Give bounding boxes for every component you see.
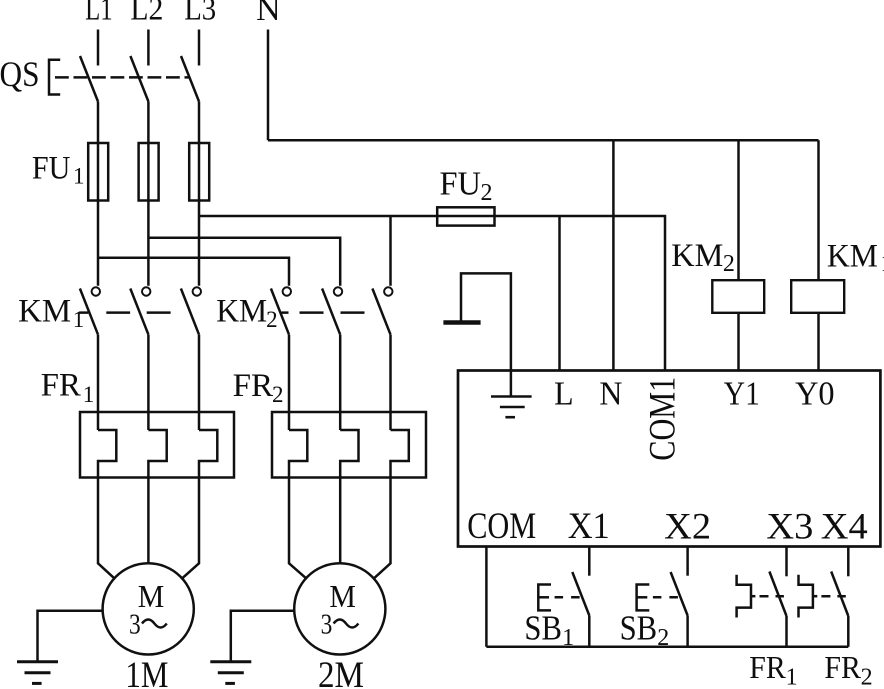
wire FU2 to L and COM1 <box>495 216 666 371</box>
svg-text:COM: COM <box>467 506 536 547</box>
switch QS linkage bracket <box>49 60 60 95</box>
wire branch L3 to FU2 with tap to KM2 pole3 <box>199 215 437 218</box>
motor 1M ground <box>17 660 58 663</box>
svg-text:COM1: COM1 <box>643 377 684 461</box>
wire N bus horizontal <box>268 139 819 142</box>
pushbutton SB2 blade <box>671 572 688 616</box>
contactor KM2 linkage dashed line <box>282 311 365 314</box>
wire KM1 coil to Y0 <box>817 313 820 371</box>
wire L1 phase FU1 to KM1 pole1 <box>97 201 100 286</box>
fuse FU1 element 2 <box>139 143 159 201</box>
contactor KM1 pole 1 <box>92 287 100 295</box>
earth bar <box>443 320 480 325</box>
fuse FU2 <box>437 207 494 225</box>
svg-text:L: L <box>554 376 574 413</box>
PLC ground symbol inside <box>510 371 513 397</box>
wire QS pole2 to FU1 <box>147 102 150 144</box>
wire KM2 pole3 to FR2 <box>389 335 392 430</box>
svg-text:1: 1 <box>83 382 95 407</box>
svg-text:2: 2 <box>723 251 735 277</box>
wire L2 drop to QS <box>147 30 150 66</box>
svg-text:FR: FR <box>41 368 81 404</box>
svg-text:X2: X2 <box>664 507 711 548</box>
wire COM to bottom bus <box>485 547 488 647</box>
contactor KM1 pole 3 <box>193 287 201 295</box>
svg-text:2: 2 <box>266 307 278 332</box>
wire FR1 to motor 1M <box>98 478 114 578</box>
svg-text:Y0: Y0 <box>795 376 835 413</box>
thermal relay FR1 heater 1 <box>98 430 116 478</box>
pushbutton SB2 actuator <box>637 585 650 611</box>
wire X3 stub <box>785 547 788 577</box>
svg-text:FR: FR <box>824 649 861 685</box>
wire N to KM1 coil <box>817 140 820 280</box>
motor 2M ground wire <box>231 611 295 662</box>
fuse FU1 element 1 <box>88 143 108 201</box>
wire KM1 pole3 to FR1 <box>198 335 201 430</box>
pushbutton SB1 blade <box>572 572 589 616</box>
thermal relay FR1 heater 2 <box>148 430 166 478</box>
wire branch L2 to KM2 pole2 <box>148 238 340 286</box>
FR1 NC contact actuator <box>737 575 751 618</box>
wire KM1 pole1 to FR1 <box>97 335 100 430</box>
svg-text:2: 2 <box>861 665 873 689</box>
svg-text:1: 1 <box>73 307 85 332</box>
wire X2 stub <box>686 547 689 576</box>
motor 2M circle <box>294 563 385 654</box>
svg-text:KM: KM <box>827 239 878 275</box>
contactor KM1 pole 2 <box>142 287 150 295</box>
motor 2M ground <box>210 660 251 663</box>
wire N drop to PLC N terminal <box>612 140 615 370</box>
thermal relay FR2 heater 3 <box>391 430 409 478</box>
wire X1 stub <box>588 547 591 576</box>
svg-text:X4: X4 <box>821 507 868 548</box>
contactor KM2 pole 3 <box>384 287 392 295</box>
svg-text:KM: KM <box>216 293 267 329</box>
wire L3 phase FU1 to KM1 pole3 <box>198 201 201 286</box>
svg-text:KM: KM <box>18 293 71 329</box>
fuse FU1 element 3 <box>189 143 209 201</box>
switch QS blade pole 3 <box>181 56 199 102</box>
contactor KM2 pole 2 <box>334 287 342 295</box>
wire KM2 pole2 to FR2 <box>339 335 342 430</box>
earth terminal wire outside PLC <box>461 273 511 370</box>
svg-text:1M: 1M <box>125 655 168 689</box>
FR2 NC contact actuator <box>799 575 813 618</box>
contactor KM1 linkage dashed line <box>80 311 171 314</box>
svg-text:FR: FR <box>233 368 274 404</box>
wire L1 drop to QS <box>97 30 100 66</box>
pushbutton SB1 actuator <box>538 585 551 611</box>
svg-text:3: 3 <box>321 610 333 641</box>
coil KM2 <box>712 280 764 313</box>
thermal relay FR1 box <box>80 412 234 478</box>
thermal relay FR2 box <box>272 412 426 478</box>
svg-text:2M: 2M <box>318 655 364 689</box>
motor 1M circle <box>103 563 194 654</box>
svg-text:2: 2 <box>657 625 669 651</box>
svg-text:N: N <box>256 0 281 28</box>
FR1 NC contact blade <box>769 572 786 617</box>
bottom bus <box>486 646 848 649</box>
wire KM2 coil to Y1 <box>737 313 740 371</box>
PLC box <box>458 371 880 547</box>
thermal relay FR2 heater 2 <box>340 430 358 478</box>
motor 1M ground wire <box>38 611 104 662</box>
wire QS pole1 to FU1 <box>97 102 100 144</box>
svg-text:SB: SB <box>620 608 658 647</box>
svg-text:3: 3 <box>129 610 141 641</box>
wire QS pole3 to FU1 <box>198 102 201 144</box>
svg-text:X1: X1 <box>568 506 610 547</box>
svg-text:1: 1 <box>786 665 798 689</box>
wire L2 phase FU1 to KM1 pole2 <box>147 201 150 286</box>
svg-text:FU: FU <box>440 165 482 202</box>
svg-text:L3: L3 <box>184 0 216 28</box>
switch QS linkage dashed line <box>55 76 190 79</box>
thermal relay FR2 heater 1 <box>289 430 307 478</box>
svg-text:M: M <box>329 578 356 614</box>
wire branch L1 to KM2 pole1 <box>98 258 289 286</box>
svg-text:N: N <box>599 376 622 413</box>
FR2 NC contact blade <box>831 572 848 617</box>
wire FR2 to motor 2M <box>289 478 306 578</box>
svg-text:1: 1 <box>562 625 574 651</box>
wire tap to PLC L terminal <box>558 216 561 371</box>
svg-text:L2: L2 <box>130 0 163 28</box>
wire X4 stub <box>847 547 850 577</box>
svg-text:L1: L1 <box>85 0 113 28</box>
svg-text:FR: FR <box>749 649 786 685</box>
svg-text:QS: QS <box>0 54 40 94</box>
svg-text:2: 2 <box>272 382 284 407</box>
switch QS blade pole 1 <box>80 56 98 102</box>
wire KM2 pole1 to FR2 <box>288 335 291 430</box>
wire L3 drop to QS <box>198 30 201 66</box>
svg-text:M: M <box>138 578 165 614</box>
coil KM1 <box>791 280 844 313</box>
wire N drop <box>267 30 270 141</box>
contactor KM2 pole 1 <box>283 287 291 295</box>
svg-text:KM: KM <box>671 238 723 274</box>
svg-text:2: 2 <box>481 180 493 206</box>
svg-text:X3: X3 <box>766 507 813 548</box>
thermal relay FR1 heater 3 <box>199 430 217 478</box>
wire N to KM2 coil <box>737 140 740 280</box>
svg-text:Y1: Y1 <box>724 376 760 413</box>
svg-text:1: 1 <box>881 251 884 277</box>
svg-text:SB: SB <box>524 608 562 647</box>
svg-text:1: 1 <box>73 164 85 189</box>
switch QS blade pole 2 <box>130 56 148 102</box>
svg-text:FU: FU <box>32 151 71 187</box>
wire KM1 pole2 to FR1 <box>147 335 150 430</box>
